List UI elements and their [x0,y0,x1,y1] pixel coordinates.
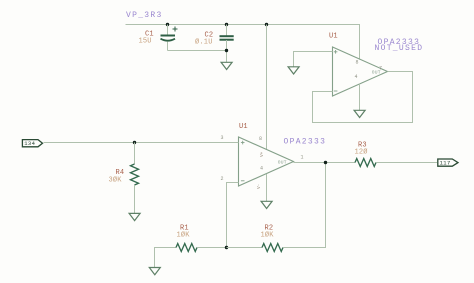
svg-text:VP_3R3: VP_3R3 [126,11,163,20]
resistor R3 120 [355,142,438,167]
ground below R4 [129,213,140,220]
svg-text:Ø.1U: Ø.1U [195,38,213,47]
svg-text:1ØK: 1ØK [261,231,275,240]
port 134 (input) [22,140,42,148]
wire U1A pin 2 to R1/R2 junction [227,183,239,248]
capacitor C2 0.1U [195,25,234,63]
junction at C2 on rail [225,23,228,26]
svg-text:2: 2 [221,176,224,182]
svg-text:8: 8 [259,136,262,142]
resistor R1 10K [176,225,227,252]
ground below R1 left [149,268,160,275]
ground at U1B pin 5 [288,67,299,74]
ground below U1B [354,110,365,117]
capacitor C1 15U (polarized) [139,25,178,51]
svg-text:V+: V+ [260,151,265,157]
wire U1B pin 5 to ground [294,52,333,67]
svg-text:U1: U1 [329,33,338,41]
resistor R4 30K [109,143,139,214]
svg-text:3: 3 [221,135,224,141]
wire output net U1A pin1 to R3 [294,162,356,164]
svg-text:U1: U1 [239,123,248,131]
svg-text:OUT: OUT [278,160,287,166]
svg-text:1ØK: 1ØK [177,231,191,240]
junction output / feedback [324,161,327,164]
port 117 (output) [438,159,458,167]
svg-text:8: 8 [356,59,359,65]
svg-text:12Ø: 12Ø [355,148,368,157]
wire VP_3R3 rail [126,25,360,60]
ground below U1A [261,201,272,208]
svg-text:1: 1 [301,155,304,161]
junction at R4 top [133,141,136,144]
wire U1A V+ from rail [266,25,268,150]
svg-text:3ØK: 3ØK [109,176,123,185]
resistor R2 10K [227,163,326,252]
junction at C1 on rail [166,23,169,26]
wire U1B V- to ground [359,84,361,110]
wire C1 bottom to C2 bottom [168,50,227,52]
ground below C2 [221,62,232,69]
wire U1A V- to ground [266,174,268,201]
svg-text:7: 7 [379,66,382,72]
svg-text:15U: 15U [139,38,152,46]
op-amp U1 gate A (main, OPA2333) [221,135,304,189]
wire R1 left to ground drop [155,248,177,268]
svg-text:NOT_USED: NOT_USED [375,44,424,53]
svg-text:4: 4 [260,166,263,172]
wire U1B feedback loop [313,72,413,123]
svg-text:117: 117 [440,160,451,167]
junction at U1A V+ on rail [265,23,268,26]
svg-text:4: 4 [355,74,358,80]
op-amp U1 gate B (unused) [333,47,388,96]
wire input net from port to U1A pin 3 [44,142,239,144]
svg-text:OPA2333: OPA2333 [284,138,327,147]
svg-text:V-: V- [257,184,262,189]
junction at C2 bottom / ground [225,49,228,52]
svg-text:134: 134 [24,140,35,147]
junction R1/R2/pin2 [225,246,228,249]
